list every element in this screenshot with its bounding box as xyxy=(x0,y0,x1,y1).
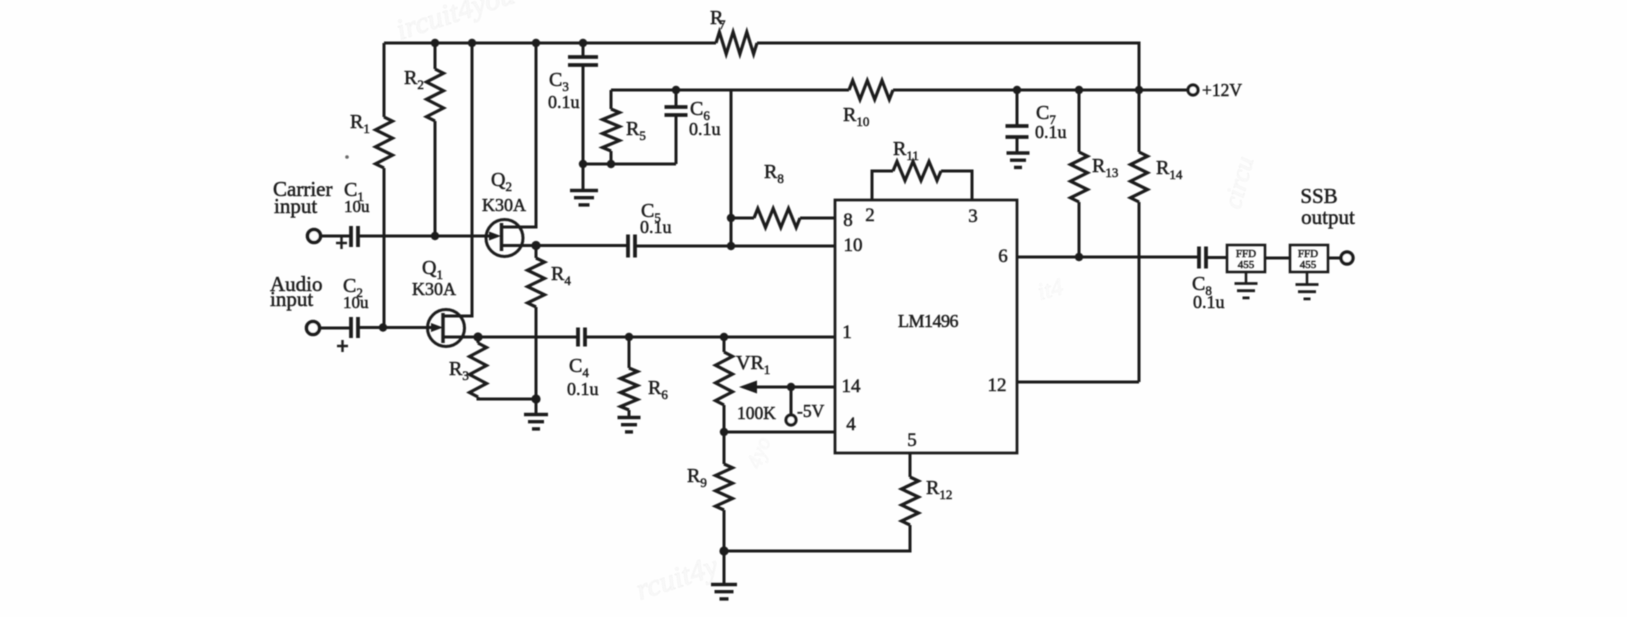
svg-text:input: input xyxy=(274,194,317,218)
wire pin 6 xyxy=(1017,256,1199,259)
svg-text:0.1u: 0.1u xyxy=(548,92,580,112)
ground xyxy=(618,418,641,432)
node xyxy=(672,86,680,94)
wire xyxy=(358,326,428,329)
node -5V terminal xyxy=(786,387,825,425)
svg-text:1: 1 xyxy=(842,322,852,343)
node xyxy=(579,39,587,47)
pin 5 label xyxy=(907,430,917,451)
capacitor C8 xyxy=(1192,247,1225,313)
wire xyxy=(1328,257,1342,260)
svg-text:3: 3 xyxy=(968,206,978,227)
svg-text:7: 7 xyxy=(719,17,726,32)
transistor Q2 K30A xyxy=(482,169,536,257)
svg-text:455: 455 xyxy=(1238,259,1255,271)
svg-text:100K: 100K xyxy=(737,403,776,423)
svg-text:4: 4 xyxy=(846,414,856,435)
resistor R7 xyxy=(710,7,757,54)
svg-text:8: 8 xyxy=(843,210,853,231)
svg-text:10: 10 xyxy=(844,235,863,256)
node carrier input terminal xyxy=(308,230,321,243)
svg-text:10u: 10u xyxy=(343,293,369,312)
capacitor C4 xyxy=(567,328,599,400)
svg-text:455: 455 xyxy=(1300,259,1317,271)
resistor R5 xyxy=(603,90,646,164)
wire xyxy=(319,327,352,330)
wire R5-C6 bottom xyxy=(583,163,676,166)
filter FL1 FFD455 xyxy=(1227,245,1265,272)
pin 6 label xyxy=(998,246,1008,267)
filter FL2 FFD455 xyxy=(1290,245,1328,272)
ground xyxy=(1007,153,1030,167)
pin 3 label xyxy=(968,206,978,227)
resistor R11 xyxy=(872,138,972,200)
node R13 bottom junction xyxy=(1075,253,1083,261)
node xyxy=(468,39,476,47)
pin 2 label xyxy=(865,205,875,226)
node Q2 source xyxy=(531,241,540,250)
svg-text:2: 2 xyxy=(865,205,875,226)
resistor R6 xyxy=(621,337,669,417)
capacitor C2 xyxy=(337,275,369,352)
svg-text:0.1u: 0.1u xyxy=(1193,292,1225,312)
wire pin 4 xyxy=(724,431,835,434)
wire bottom xyxy=(724,525,910,551)
svg-text:K30A: K30A xyxy=(412,279,456,299)
pin 10 label xyxy=(844,235,863,256)
ground xyxy=(1296,272,1319,299)
wire xyxy=(635,245,835,248)
capacitor C7 xyxy=(1006,90,1067,152)
resistor R14 xyxy=(1131,90,1183,382)
ground xyxy=(711,551,737,599)
capacitor C1 xyxy=(336,179,370,249)
node +12V terminal xyxy=(1188,80,1242,100)
resistor R9 xyxy=(687,432,733,551)
svg-text:LM1496: LM1496 xyxy=(898,311,959,331)
potentiometer VR1 xyxy=(716,337,836,432)
pin 12 label xyxy=(988,375,1007,396)
wire xyxy=(1265,257,1290,260)
node xyxy=(579,160,587,168)
pin 4 label xyxy=(846,414,856,435)
resistor R3 xyxy=(449,337,536,399)
node R8 junction xyxy=(727,214,735,222)
wire xyxy=(358,235,486,238)
label SSB output xyxy=(1300,184,1355,229)
svg-text:5: 5 xyxy=(907,430,917,451)
svg-text:12: 12 xyxy=(988,375,1007,396)
capacitor C6 xyxy=(665,90,721,164)
svg-text:+12V: +12V xyxy=(1202,80,1242,100)
node SSB output terminal xyxy=(1341,252,1353,264)
resistor R13 xyxy=(1071,90,1119,257)
node Q1 source xyxy=(473,332,482,341)
resistor R10 xyxy=(843,81,893,130)
svg-text:input: input xyxy=(270,287,313,311)
svg-text:0.1u: 0.1u xyxy=(640,217,672,237)
wire Q2 drain xyxy=(523,43,536,227)
ground xyxy=(1235,272,1258,298)
wire xyxy=(320,235,352,238)
wire pin 12 xyxy=(1017,381,1139,384)
capacitor C3 xyxy=(548,43,598,164)
node R3-R4 ground junction xyxy=(531,394,540,403)
wire xyxy=(730,90,733,246)
node xyxy=(607,160,615,168)
label carrier input xyxy=(273,177,332,218)
wire top bus xyxy=(384,43,1139,90)
node R6 junction xyxy=(625,333,633,341)
node VR1 bottom junction xyxy=(720,428,728,436)
pin 14 label xyxy=(842,376,862,397)
svg-text:-5V: -5V xyxy=(797,401,825,421)
pin 1 label xyxy=(842,322,852,343)
wire xyxy=(1206,256,1227,259)
wire rail xyxy=(611,89,1188,92)
node audio input terminal xyxy=(307,322,320,335)
capacitor C5 xyxy=(628,200,672,258)
node xyxy=(719,546,728,555)
wire xyxy=(478,336,578,339)
resistor R12 xyxy=(902,453,953,525)
transistor Q1 K30A xyxy=(412,257,478,347)
svg-text:10u: 10u xyxy=(344,197,370,216)
node xyxy=(1075,86,1083,94)
resistor R1 xyxy=(350,43,393,328)
pin 8 label xyxy=(843,210,853,231)
node R1-audio junction xyxy=(379,323,387,331)
wire xyxy=(536,244,628,247)
wire Q1 drain xyxy=(462,43,472,316)
node -5V junction xyxy=(787,383,795,391)
svg-text:14: 14 xyxy=(842,376,862,397)
resistor R8 xyxy=(731,161,835,228)
resistor R4 xyxy=(528,246,572,400)
ground xyxy=(570,164,598,205)
node pin10 junction xyxy=(727,242,735,250)
node R2-carrier junction xyxy=(431,232,439,240)
node VR1 top junction xyxy=(720,333,728,341)
wire xyxy=(585,336,835,339)
svg-text:6: 6 xyxy=(998,246,1008,267)
node xyxy=(532,39,540,47)
node xyxy=(1135,86,1143,94)
label audio input xyxy=(270,272,323,311)
node xyxy=(431,39,439,47)
resistor R2 xyxy=(404,43,444,236)
svg-text:0.1u: 0.1u xyxy=(567,379,599,399)
svg-text:0.1u: 0.1u xyxy=(689,119,721,139)
svg-text:0.1u: 0.1u xyxy=(1035,122,1067,142)
node xyxy=(1013,86,1021,94)
ground xyxy=(524,399,548,429)
svg-text:output: output xyxy=(1301,205,1355,229)
svg-text:K30A: K30A xyxy=(482,195,526,215)
op-amp U1 LM1496 body xyxy=(835,200,1017,453)
